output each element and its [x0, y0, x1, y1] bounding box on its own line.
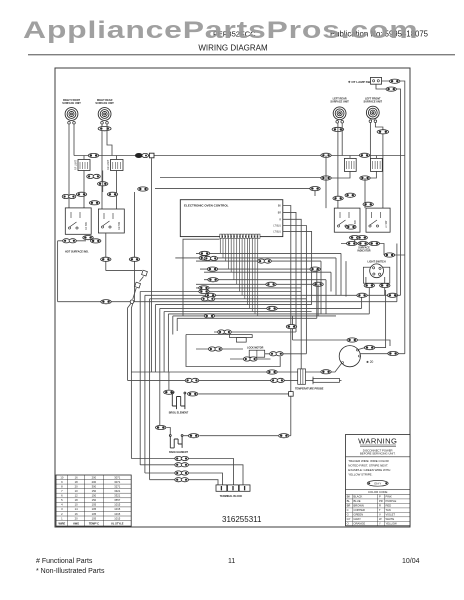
svg-text:10: 10	[60, 475, 63, 479]
svg-text:105: 105	[92, 516, 97, 520]
connector above RB2	[363, 202, 373, 206]
wire right bundle x321	[320, 261, 322, 314]
connector above RB1 a	[333, 196, 343, 200]
fuse link lower	[135, 282, 141, 288]
wire right bundle x346	[345, 261, 347, 297]
svg-text:LT BLU: LT BLU	[273, 232, 281, 234]
wire left bus vertical	[57, 241, 59, 302]
connector left column a	[62, 194, 76, 198]
wire light oval drop	[361, 295, 363, 308]
wire sensor row lower	[128, 379, 298, 381]
wire mesh row y311.5	[164, 311, 312, 313]
svg-text:RF SW: RF SW	[85, 222, 88, 230]
connector mesh y269.1 x315.1	[310, 267, 320, 271]
connector mesh y308.4 x272	[267, 306, 277, 310]
wire broil right	[199, 393, 289, 395]
connector below coil LR	[332, 127, 344, 131]
svg-text:WARNING: WARNING	[358, 437, 397, 446]
wire junction fan a	[128, 303, 132, 380]
connector light switch out a	[364, 283, 374, 287]
wire lock inner2	[230, 358, 271, 360]
svg-text:20: 20	[75, 485, 78, 489]
wire left bundle x140.2	[139, 292, 141, 466]
wire mesh row y298.8	[150, 298, 307, 300]
switch L1 contacts	[68, 212, 80, 229]
svg-text:O: O	[347, 522, 349, 526]
wire limiter RF feed	[83, 156, 85, 160]
wire junction row y301.7	[58, 301, 397, 303]
connector thermostat feed	[286, 325, 296, 329]
wire mesh row y261.1	[196, 260, 321, 262]
wire EOC stub R	[283, 219, 301, 369]
svg-text:200: 200	[92, 475, 97, 479]
svg-text:150: 150	[92, 494, 97, 498]
wire right bundle x326	[325, 280, 327, 314]
svg-text:LF SW: LF SW	[385, 220, 388, 228]
svg-text:WIRE: WIRE	[59, 521, 66, 525]
connector mesh y287.9 x203.9	[199, 286, 209, 290]
svg-text:V: V	[379, 513, 381, 517]
connector mesh y315.9 x209.4	[204, 314, 214, 318]
surface unit coil RF	[65, 108, 78, 121]
svg-text:SURFACE UNIT: SURFACE UNIT	[95, 102, 114, 105]
wire gauge table	[56, 475, 131, 526]
light switch rotary	[370, 264, 384, 278]
wire diag link	[140, 277, 144, 282]
svg-text:16: 16	[75, 512, 78, 516]
temperature probe	[306, 377, 342, 385]
wire broil drop	[168, 372, 170, 390]
schematic frame	[55, 68, 410, 527]
wire coil RF left leg	[68, 124, 70, 208]
svg-text:✱ 20: ✱ 20	[366, 360, 373, 364]
connector thermostat top	[347, 338, 357, 342]
wire harness row 3	[145, 473, 223, 485]
wire mesh row y257.9	[175, 257, 336, 259]
connector below L1 a	[83, 236, 93, 240]
light switch box	[363, 267, 389, 283]
wire EOC stub BK	[283, 206, 291, 392]
wire main bus y155	[74, 155, 405, 157]
connector lock c	[243, 357, 257, 361]
wire x365 drop	[364, 178, 366, 208]
svg-text:PR: PR	[379, 499, 383, 503]
wire left bundle x155.4	[154, 305, 156, 372]
svg-text:TERMINAL BLOCK: TERMINAL BLOCK	[220, 495, 243, 498]
svg-text:BK: BK	[347, 495, 351, 499]
wire mesh row y313.9	[168, 313, 369, 315]
svg-text:COLOR CODE: COLOR CODE	[368, 490, 388, 494]
switch RB2 contacts	[369, 212, 381, 227]
svg-text:TEMPERATURE PROBE: TEMPERATURE PROBE	[295, 387, 324, 390]
svg-text:EXAMPLE: GREEN WIRE WITH: EXAMPLE: GREEN WIRE WITH	[348, 468, 390, 472]
wire mesh row y287.9	[196, 287, 301, 289]
connector mesh y253.4 x204.5	[199, 251, 209, 255]
header rule	[28, 54, 455, 56]
wire thermostat right	[360, 353, 404, 355]
wire RB1 to indicator	[354, 240, 356, 244]
svg-text:20: 20	[75, 516, 78, 520]
svg-text:SURFACE UNIT: SURFACE UNIT	[364, 101, 383, 104]
lock motor bar	[230, 335, 253, 338]
connector mesh y284.3 x318.1	[313, 282, 323, 286]
wire EOC pin drops	[220, 238, 257, 316]
svg-text:INDICATOR: INDICATOR	[357, 250, 370, 253]
wire mesh row y304.6	[155, 304, 311, 306]
wire OT lamp lower	[376, 84, 401, 295]
connector harness 1	[175, 456, 189, 460]
svg-text:GN-Y: GN-Y	[374, 482, 381, 486]
wire mesh row y315.9	[173, 315, 336, 317]
wire inf LF out	[365, 171, 376, 178]
wire right bundle x341	[340, 253, 342, 295]
svg-text:WHITE: WHITE	[386, 517, 395, 521]
connector bake right2	[279, 434, 289, 438]
connector mesh y332.0 x224.5	[218, 330, 232, 334]
junction square on bus	[149, 153, 154, 158]
connector mesh y295.3 x362	[357, 293, 367, 297]
svg-text:TAN: TAN	[386, 508, 391, 512]
connector lock d	[270, 352, 284, 356]
lock frame	[186, 335, 280, 367]
surface unit coil LF	[366, 106, 379, 119]
wire y270 link	[106, 270, 142, 272]
svg-text:11: 11	[228, 558, 235, 565]
sensor plug	[298, 369, 306, 384]
connector light switch out b	[380, 283, 390, 287]
svg-text:AWG: AWG	[73, 521, 79, 525]
wire left bundle x149.6	[149, 299, 151, 480]
connector harness 4	[175, 478, 189, 482]
svg-text:UL STYLE: UL STYLE	[111, 521, 124, 525]
svg-text:NOTED FIRST, STRIPE NEXT.: NOTED FIRST, STRIPE NEXT.	[348, 463, 388, 467]
connector mesh y269.1 x212.5	[207, 267, 217, 271]
junction node	[130, 300, 134, 304]
surface switch box RB2	[366, 208, 390, 232]
svg-text:105: 105	[92, 507, 97, 511]
connector surf ind c	[369, 241, 379, 245]
wire mesh row y332.0	[214, 331, 296, 333]
svg-text:SURFACE UNIT: SURFACE UNIT	[62, 102, 81, 105]
wire mesh row y295.3	[145, 294, 401, 296]
svg-text:RR SW: RR SW	[118, 221, 121, 230]
svg-text:150: 150	[92, 489, 97, 493]
coil RR terminals	[101, 122, 109, 125]
svg-text:YELLOW STRIPE.: YELLOW STRIPE.	[348, 473, 372, 477]
wire sensor row upper	[131, 363, 342, 372]
svg-text:* Non-Illustrated Parts: * Non-Illustrated Parts	[36, 568, 105, 575]
wire mesh row y284.3	[196, 283, 318, 285]
wire below L2 vertical	[105, 233, 107, 271]
wire EOC stub BR	[283, 212, 296, 332]
infinite switch LF	[371, 158, 383, 171]
connector below inf LF	[360, 176, 370, 180]
wire junction square drop	[151, 158, 153, 372]
svg-text:1015: 1015	[114, 516, 120, 520]
connector mesh y284.3 x271	[266, 282, 276, 286]
wire bus y177	[160, 177, 326, 179]
wire right bundle x318.1	[317, 284, 319, 316]
svg-text:3271: 3271	[114, 485, 120, 489]
wire mesh row y269.1	[200, 268, 317, 270]
connector bake right	[188, 434, 198, 438]
connector bake left	[156, 425, 166, 429]
svg-text:# Functional Parts: # Functional Parts	[36, 558, 93, 565]
svg-text:GRAY: GRAY	[354, 517, 362, 521]
svg-text:P: P	[379, 495, 381, 499]
svg-text:BEFORE SERVICING UNIT.: BEFORE SERVICING UNIT.	[360, 452, 396, 456]
svg-text:BAKE ELEMENT: BAKE ELEMENT	[169, 451, 188, 454]
wire left bundle x172.8	[172, 316, 174, 335]
wire surface indicator row	[341, 244, 384, 256]
wire x326 drop	[325, 156, 327, 209]
wire hot surface lamp	[58, 240, 86, 242]
wire EOC pin row left	[183, 239, 220, 316]
connector harness 2	[175, 463, 189, 467]
svg-text:3321: 3321	[114, 489, 120, 493]
wire left bundle x177.2	[176, 318, 178, 331]
surface switch box RB1	[334, 208, 360, 232]
svg-text:COPPER: COPPER	[354, 508, 365, 512]
connector x134 y259	[129, 257, 139, 261]
svg-text:16: 16	[75, 475, 78, 479]
wire left bundle x159.8	[159, 308, 161, 425]
svg-text:3557: 3557	[114, 498, 120, 502]
connector OT lamp a	[390, 79, 400, 83]
wire inf LF feed	[375, 156, 377, 159]
surface switch box L2	[98, 209, 124, 233]
warning box	[346, 435, 411, 526]
connector sensor upper	[267, 370, 277, 374]
connector below limiter RR	[98, 182, 108, 186]
svg-text:3071: 3071	[114, 480, 120, 484]
wire junction fan b	[131, 303, 132, 458]
connector y188 right	[310, 187, 320, 191]
connector x105 y259	[101, 257, 111, 261]
connector mesh y298.8 x208	[201, 297, 215, 301]
svg-text:SURFACE UNIT: SURFACE UNIT	[330, 101, 349, 104]
wire harness row 2	[140, 465, 243, 485]
svg-text:G: G	[347, 513, 349, 517]
broil element	[171, 392, 185, 409]
electronic oven control box	[180, 200, 282, 237]
wire thermostat feed vertical	[292, 316, 294, 340]
connector light switch feed	[384, 253, 394, 257]
fuse link upper	[142, 270, 148, 276]
wire EOC stub LTBLU1	[283, 226, 307, 354]
svg-text:10: 10	[75, 489, 78, 493]
connector mesh y279.7 x213	[208, 278, 218, 282]
watermark AppliancePartsPros.com	[23, 17, 418, 45]
svg-text:LT BLU: LT BLU	[273, 226, 281, 228]
svg-text:200: 200	[92, 480, 97, 484]
connector mesh y261.1 x264.5	[258, 259, 272, 263]
wire light sw legs	[366, 277, 385, 314]
connector sensor lower	[271, 378, 285, 382]
svg-text:300: 300	[92, 485, 97, 489]
connector below coil LF	[377, 130, 389, 134]
connector mesh y295.3 x210.5	[205, 293, 215, 297]
svg-text:316255311: 316255311	[222, 515, 262, 524]
wire EOC stub LTBLU2	[283, 231, 312, 304]
wire left bundle x168.4	[167, 314, 169, 372]
svg-text:18: 18	[75, 480, 78, 484]
svg-text:GREEN: GREEN	[354, 513, 364, 517]
surface switch box L1	[65, 208, 91, 234]
svg-text:RF LIMIT: RF LIMIT	[75, 159, 78, 170]
svg-text:VIOLET: VIOLET	[386, 513, 396, 517]
svg-text:12: 12	[75, 494, 78, 498]
OT lamp switch box	[371, 77, 382, 84]
svg-text:TRACER WIRE: WIRE COLOR: TRACER WIRE: WIRE COLOR	[348, 459, 388, 463]
wire coil LF right leg	[375, 122, 383, 208]
wire left bundle x164.1	[163, 312, 165, 372]
wire lock inner	[196, 348, 243, 350]
connector surf ind a	[347, 241, 357, 245]
wire thermostat top row	[293, 340, 391, 346]
wire inf LR out	[326, 171, 350, 178]
connector mesh y258.4 x210.8	[204, 256, 218, 260]
svg-text:10/04: 10/04	[402, 558, 420, 565]
svg-text:TEMP°C: TEMP°C	[89, 521, 99, 525]
svg-text:Y: Y	[379, 522, 381, 526]
connector sensor pair left	[185, 378, 199, 382]
svg-text:PINK: PINK	[386, 495, 392, 499]
svg-text:ORANGE: ORANGE	[354, 522, 366, 526]
connector left column d	[89, 201, 99, 205]
oven thermostat body	[339, 346, 360, 367]
wire right bundle x331	[330, 272, 332, 291]
surface unit coil LR	[333, 107, 346, 120]
svg-text:1015: 1015	[114, 512, 120, 516]
coil LR terminals	[336, 121, 344, 124]
connector on bus right x364	[359, 153, 369, 157]
svg-text:YELLOW: YELLOW	[386, 522, 398, 526]
connector mesh y295.3 x392.5	[387, 293, 397, 297]
connector harness 3	[175, 471, 189, 475]
surface unit coil RR	[98, 108, 111, 121]
svg-text:BROWN: BROWN	[354, 504, 364, 508]
connector below inf LR	[321, 176, 331, 180]
wire bake to bus	[290, 435, 291, 437]
wire mesh row y253.4	[196, 252, 341, 254]
connector mesh y257.9 x204.3	[199, 256, 209, 260]
wire right bundle x316.8	[316, 269, 318, 318]
connector below coil RR	[98, 126, 111, 130]
connector on bus right x326	[321, 153, 331, 157]
connector left column e	[138, 187, 148, 191]
svg-text:BL: BL	[347, 499, 351, 503]
wire OT lamp right	[382, 81, 405, 354]
wire coil LR left leg	[337, 123, 339, 208]
switch L2 contacts	[101, 213, 113, 228]
connector surf ind b	[358, 241, 368, 245]
connector thermostat r	[388, 351, 398, 355]
svg-text:BR: BR	[278, 213, 282, 215]
svg-text:GY: GY	[347, 517, 351, 521]
wire harness row 4	[150, 480, 218, 485]
wire coil RR right leg	[107, 124, 112, 156]
EOC pin strip	[220, 234, 260, 238]
limiter switch RR	[111, 160, 124, 171]
wire inf LR feed	[349, 156, 351, 159]
svg-text:✳ OT LAMP SW: ✳ OT LAMP SW	[348, 80, 371, 84]
wire limiter RR link	[102, 171, 104, 193]
wire limiter RF out	[83, 171, 85, 208]
wire right bundle x396.9	[396, 244, 398, 302]
terminal block	[216, 485, 227, 491]
wire left bundle x144.9	[144, 295, 146, 473]
wire limiter RR feed	[116, 156, 118, 160]
connector mesh y291.5 x204	[199, 289, 209, 293]
svg-text:3321: 3321	[114, 494, 120, 498]
wire mesh row y291.5	[140, 291, 301, 293]
wire diag link2	[133, 288, 136, 299]
limiter switch RF	[78, 160, 90, 171]
svg-text:BROIL ELEMENT: BROIL ELEMENT	[169, 411, 189, 414]
svg-text:10: 10	[75, 503, 78, 507]
wire right bundle x336	[335, 258, 337, 295]
svg-text:ELECTRONIC OVEN CONTROL: ELECTRONIC OVEN CONTROL	[184, 204, 229, 208]
wire bake right	[183, 435, 278, 437]
svg-text:18: 18	[75, 498, 78, 502]
wire bus y188	[155, 189, 315, 196]
wire mesh row y308.4	[160, 307, 362, 309]
svg-text:C: C	[347, 508, 349, 512]
wire coil LR right leg	[341, 123, 343, 156]
bake element	[169, 435, 183, 448]
lock switch box	[249, 350, 265, 357]
svg-text:BLACK: BLACK	[354, 495, 363, 499]
connector broil right	[188, 392, 198, 396]
connector below limiter RF	[87, 174, 101, 178]
infinite switch LR	[344, 158, 356, 171]
wire mesh row y279.7	[204, 279, 326, 281]
wire light switch feed	[384, 254, 405, 256]
connector broil left	[164, 390, 174, 394]
connector pair on bus x141 dark	[135, 153, 148, 157]
wire broil bus drop	[290, 396, 292, 436]
connector left column c	[107, 192, 117, 196]
wire bake left	[167, 428, 171, 435]
wire mesh row y318.3	[177, 317, 317, 319]
svg-text:1015: 1015	[114, 507, 120, 511]
wire limiter RR out	[116, 171, 118, 210]
wire coil RR left leg	[101, 124, 103, 209]
svg-text:BK: BK	[278, 206, 282, 208]
connector below RB1	[346, 225, 356, 229]
wire coil LF left leg	[369, 122, 371, 158]
connector on bus x93	[88, 153, 98, 157]
wire thermostat upper right	[358, 290, 385, 350]
connector thermostat ur	[364, 346, 374, 350]
svg-text:PURPLE: PURPLE	[386, 499, 397, 503]
wire limiter RR long drop	[134, 192, 136, 302]
wire coil RF right leg	[73, 124, 75, 156]
junction square broil	[289, 392, 294, 397]
svg-text:14: 14	[75, 507, 78, 511]
wire lock right	[265, 353, 307, 355]
connector lock b	[209, 347, 223, 351]
wire mesh row y272.2	[204, 271, 331, 273]
svg-text:RR LIMIT: RR LIMIT	[107, 159, 110, 170]
switch RB1 contacts	[337, 212, 349, 227]
connector junction row	[101, 300, 111, 304]
svg-text:150: 150	[92, 498, 97, 502]
svg-text:LOCK MOTOR: LOCK MOTOR	[247, 346, 264, 349]
connector OT lamp b	[386, 87, 396, 91]
svg-text:BLUE: BLUE	[354, 499, 361, 503]
